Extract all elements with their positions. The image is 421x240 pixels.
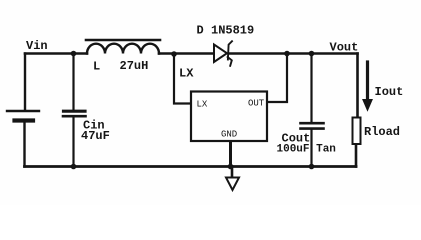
svg-text:D: D xyxy=(197,24,204,38)
wire top rail left (Vin to inductor) xyxy=(25,52,87,55)
wire top rail middle (inductor to diode anode) xyxy=(159,52,214,55)
resistor Rload body xyxy=(353,118,361,145)
svg-text:27uH: 27uH xyxy=(120,59,149,73)
svg-text:Vin: Vin xyxy=(26,39,48,53)
battery B1 negative plate xyxy=(15,118,34,122)
wire Cin upper branch xyxy=(72,54,74,111)
wire left vertical (Vin down to battery) xyxy=(24,54,26,111)
wire battery bottom to ground rail xyxy=(23,123,25,167)
inductor L core bar xyxy=(86,39,160,42)
svg-text:Rload: Rload xyxy=(364,125,400,139)
junction node top/Cin xyxy=(71,51,77,57)
diode D1 1N5819 triangle xyxy=(214,45,227,63)
wire bottom ground rail xyxy=(25,165,357,168)
wire Cin lower branch xyxy=(72,117,74,167)
svg-text:100uF Tan: 100uF Tan xyxy=(277,144,336,156)
svg-text:1N5819: 1N5819 xyxy=(211,24,254,38)
svg-text:Vout: Vout xyxy=(330,41,359,55)
capacitor Cin bottom plate xyxy=(63,115,86,118)
wire Cout upper branch xyxy=(310,54,312,123)
wire Cout lower branch xyxy=(310,129,312,167)
wire right vertical (Vout corner to Rload) xyxy=(356,54,359,118)
diode D1 schottky cathode bar xyxy=(228,41,232,59)
current arrow Iout xyxy=(366,62,369,100)
ground symbol xyxy=(231,167,234,178)
wire LX node down and into IC pin LX xyxy=(174,54,191,104)
battery B1 positive plate xyxy=(7,110,39,112)
junction node bottom/Cout xyxy=(309,164,315,170)
wire GND pin down to ground rail xyxy=(229,141,232,167)
svg-text:Iout: Iout xyxy=(375,85,404,99)
svg-text:LX: LX xyxy=(179,67,194,81)
svg-text:L: L xyxy=(93,60,100,74)
junction node top/OUT xyxy=(284,51,290,57)
junction node LX xyxy=(171,51,177,57)
wire top rail right (diode cathode to Vout corner) xyxy=(229,52,358,55)
junction node top/Cout xyxy=(309,51,315,57)
wire Rload bottom to ground rail xyxy=(355,144,358,167)
svg-text:LX: LX xyxy=(197,100,208,110)
IC U1 body xyxy=(191,92,267,142)
junction node bottom/Cin xyxy=(71,164,77,170)
junction node bottom/GND xyxy=(228,164,234,170)
capacitor Cout bottom plate xyxy=(301,127,324,130)
svg-text:OUT: OUT xyxy=(248,99,265,109)
wire OUT pin right then up to top rail xyxy=(267,54,287,103)
svg-text:47uF: 47uF xyxy=(81,129,110,143)
capacitor Cin top plate xyxy=(64,110,86,113)
svg-text:GND: GND xyxy=(221,130,237,140)
capacitor Cout top plate xyxy=(301,122,324,125)
inductor L windings xyxy=(87,44,159,54)
